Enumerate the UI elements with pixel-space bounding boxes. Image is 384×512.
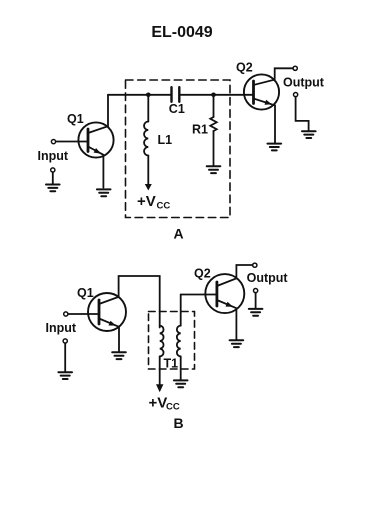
svg-text:T1: T1	[164, 357, 179, 371]
svg-text:CC: CC	[166, 402, 180, 413]
svg-text:R1: R1	[192, 123, 208, 137]
svg-text:Output: Output	[247, 271, 289, 285]
svg-text:Q2: Q2	[194, 267, 211, 281]
svg-text:Output: Output	[283, 76, 325, 90]
svg-text:L1: L1	[158, 133, 173, 147]
svg-text:Input: Input	[46, 321, 77, 335]
svg-text:Q1: Q1	[77, 286, 94, 300]
svg-text:Input: Input	[38, 149, 69, 163]
svg-text:+V: +V	[137, 193, 156, 210]
svg-text:B: B	[174, 415, 184, 431]
svg-text:+V: +V	[149, 395, 168, 412]
svg-text:CC: CC	[157, 201, 171, 212]
svg-text:A: A	[174, 226, 184, 242]
svg-text:EL-0049: EL-0049	[151, 24, 212, 41]
svg-text:C1: C1	[169, 102, 185, 116]
svg-text:Q2: Q2	[236, 61, 253, 75]
svg-text:Q1: Q1	[67, 112, 84, 126]
